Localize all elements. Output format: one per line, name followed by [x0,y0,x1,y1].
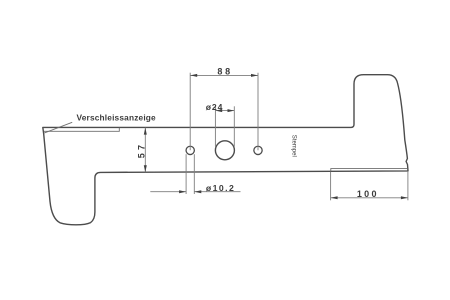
dimension 88 right arrowhead [251,74,258,77]
right mounting hole [254,146,262,154]
dimension ø10.2 right arrowhead [194,190,201,193]
dimension ø24 extension lines [215,106,234,146]
svg-text:ø10.2: ø10.2 [206,183,235,193]
dimension 88 extension lines [190,73,258,151]
dimension 100 dimension line [331,197,408,199]
svg-text:100: 100 [357,189,379,199]
dimension 100 right arrowhead [401,196,408,199]
dimension ø24 left arrowhead [215,109,222,112]
center bore circle ø24 [215,141,234,160]
dimension ø10.2 left dimension line [150,191,186,193]
wear indicator line at left tip [44,128,119,132]
dimension 88 dimension line [190,74,258,76]
dimension 100 extension lines [331,172,408,201]
dimension 57 top arrowhead [144,128,147,135]
svg-text:57: 57 [137,142,147,158]
dimension ø10.2 left arrowhead [179,190,186,193]
leader line to wear indicator [44,122,72,133]
left mounting hole ø10.2 [186,146,194,154]
dimension ø24 right arrowhead [228,109,235,112]
dimension 57 bottom arrowhead [144,165,147,172]
dimension ø10.2 right dimension line [194,191,240,193]
dimension ø10.2 extension lines [186,154,194,194]
svg-text:88: 88 [217,66,233,76]
blade bottom lip edge (thin, right section) [331,169,408,172]
dimension 88 left arrowhead [190,74,197,77]
svg-text:ø24: ø24 [206,102,224,112]
blade outline [43,75,408,225]
dimension 100 left arrowhead [331,196,338,199]
dimension ø24 dimension line [215,110,234,112]
dimension 57 dimension line [144,128,146,173]
svg-text:Verschleissanzeige: Verschleissanzeige [77,113,157,123]
svg-text:Stempel: Stempel [290,135,296,157]
